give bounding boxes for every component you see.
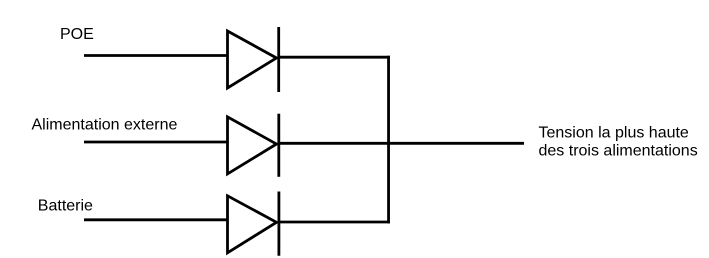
wire POE input: [84, 54, 228, 57]
svg-text:des trois alimentations: des trois alimentations: [539, 142, 698, 159]
wire OR bus vertical: [387, 56, 390, 224]
svg-text:Alimentation externe: Alimentation externe: [32, 117, 178, 134]
svg-text:Tension la plus haute: Tension la plus haute: [539, 124, 689, 141]
svg-text:POE: POE: [60, 26, 94, 43]
wire D1 cathode to OR node: [279, 56, 390, 59]
wire D2 cathode to output: [279, 142, 524, 145]
wire D3 cathode to OR node: [279, 221, 390, 224]
wire external supply input: [84, 141, 228, 144]
svg-text:Batterie: Batterie: [38, 197, 93, 214]
node output label: Tension la plus haute des trois alimentations: [539, 124, 698, 159]
diode D3 (Batterie): [228, 192, 279, 256]
diode D1 (POE): [228, 27, 279, 92]
diode D2 (Alimentation externe): [228, 114, 279, 177]
wire battery input: [84, 218, 228, 221]
